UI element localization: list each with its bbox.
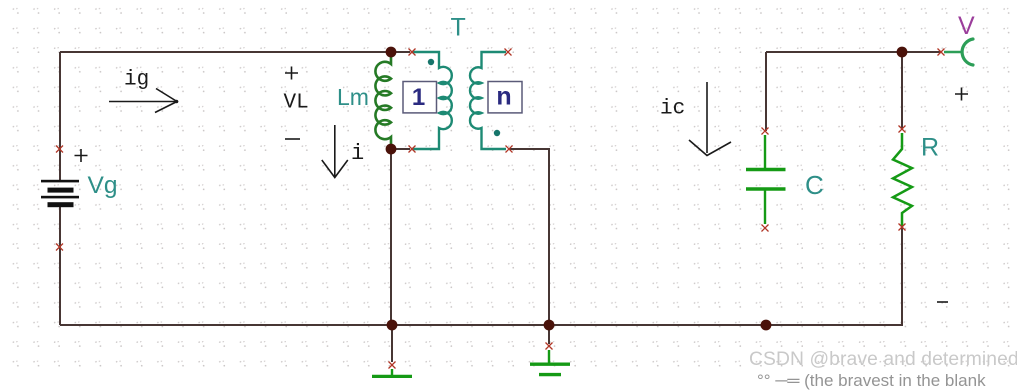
svg-text:i: i: [351, 141, 364, 166]
svg-text:C: C: [805, 170, 824, 200]
svg-text:n: n: [496, 83, 511, 111]
svg-text:ic: ic: [660, 98, 685, 121]
svg-text:ig: ig: [124, 69, 149, 92]
svg-text:Lm: Lm: [337, 84, 369, 110]
svg-text:V: V: [958, 12, 975, 40]
svg-text:VL: VL: [284, 92, 309, 115]
svg-text:Vg: Vg: [88, 172, 118, 199]
svg-text:R: R: [921, 134, 939, 162]
svg-text:T: T: [451, 14, 466, 42]
svg-text:1: 1: [412, 84, 425, 111]
